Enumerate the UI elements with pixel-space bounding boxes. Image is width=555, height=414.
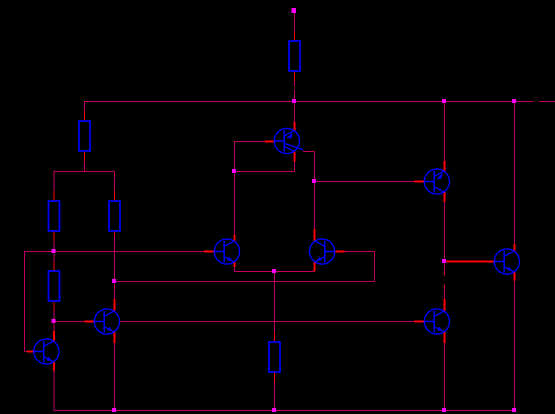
pin Q7 collector — [444, 299, 446, 311]
wire emitter join left — [235, 271, 275, 273]
junction node G — [442, 259, 446, 263]
wire node C to Q6 collector — [114, 282, 116, 300]
pin R3 top — [53, 191, 55, 201]
pin Q2 base — [415, 181, 425, 183]
wire split bar y=171 — [54, 171, 115, 173]
resistor R4 — [109, 201, 120, 231]
pin R4 bottom — [114, 231, 116, 236]
pin R1 top — [294, 32, 296, 41]
wire node D down to Q4 collector — [234, 172, 236, 236]
wire R2 to split node — [84, 161, 86, 172]
wire emitter join right — [275, 271, 315, 273]
wire R1 to rail lower — [294, 90, 296, 102]
wire Q8 emitter down — [53, 371, 55, 411]
wire node E to Q2 base — [315, 181, 415, 183]
pin Q3 base wire red — [445, 261, 495, 263]
junction rail x444 — [442, 99, 446, 103]
pin Q4 emitter — [234, 262, 236, 267]
resistor R2 — [79, 121, 90, 151]
wire Q4 emitter corner — [234, 267, 236, 272]
wire split to R3 — [53, 172, 55, 192]
wire left rail corner to Q8 base — [25, 351, 28, 353]
pin Q2 emitter — [444, 161, 446, 171]
wire R4 down to node C — [114, 236, 116, 282]
pin Q1 collector1 — [294, 152, 296, 162]
resistor R6 — [269, 342, 280, 372]
resistor R5 — [49, 271, 60, 301]
wire ground rail y=410 — [54, 410, 515, 412]
pin Q3 collector — [514, 244, 516, 251]
wire Q1 collector2 right — [303, 151, 315, 153]
wire Q3 emitter down to ground — [514, 281, 516, 411]
junction rail x294 — [292, 99, 296, 103]
pin Q7 base — [415, 321, 425, 323]
pin marker top supply — [292, 8, 297, 13]
pin Q7 emitter — [444, 332, 446, 343]
transistor Q5 NPN mirrored middle right — [310, 239, 335, 264]
wire node E down to Q5 collector — [314, 182, 316, 230]
wire node F down to R6 — [274, 272, 276, 333]
wire Q2 emitter up to rail — [444, 102, 446, 162]
transistor Q3 NPN bottom right — [494, 249, 519, 274]
junction ground x114 — [112, 408, 116, 412]
transistor Q4 NPN middle left — [214, 239, 239, 264]
wire Q1 collector1 down — [294, 161, 296, 171]
transistor Q7 NPN lower right — [424, 309, 449, 334]
wire rail to R2 — [84, 102, 86, 112]
resistor R3 — [49, 201, 60, 231]
pin R5 bottom — [53, 301, 55, 311]
pin R5 top — [53, 261, 55, 271]
junction ground x274 — [272, 408, 276, 412]
junction node B — [52, 319, 56, 323]
pin R6 top — [274, 332, 276, 342]
wire loop y=281 to node C — [115, 281, 375, 283]
pin Q8 collector — [53, 331, 55, 341]
pin R3 bottom — [53, 231, 55, 241]
transistor Q1 dual-collector PNP top — [274, 128, 303, 153]
pin R1 bottom — [294, 71, 296, 81]
resistor R1 — [289, 41, 300, 71]
wire R5 to node B — [53, 311, 55, 322]
pin Q6 emitter — [114, 332, 116, 343]
wire Q7 emitter down — [444, 343, 446, 411]
wire VCC rail right stub — [539, 101, 555, 103]
wire Q2 collector down to node G — [444, 202, 446, 262]
wire VCC rail y=101 — [84, 101, 534, 103]
wire Q5 base loop down — [374, 252, 376, 282]
pin R2 top — [84, 111, 86, 121]
pin Q8 emitter — [53, 362, 55, 370]
pin Q3 emitter — [514, 272, 516, 280]
junction node F — [272, 269, 276, 273]
pin Q6 collector — [114, 299, 116, 311]
wire split to R4 — [114, 172, 116, 192]
pin Q1 base — [265, 141, 275, 143]
transistor Q2 PNP right — [424, 169, 449, 194]
wire collector1 tie to node D — [235, 171, 295, 173]
wire Q8 collector to node B — [53, 322, 55, 332]
pin Q2 collector — [444, 192, 446, 202]
wire Q1 base left — [234, 141, 265, 143]
pin R4 top — [114, 191, 116, 201]
wire top pin to R1 — [294, 13, 296, 32]
pin R6 bottom — [274, 372, 276, 382]
junction rail x514 — [512, 99, 516, 103]
wire Q6 emitter down — [114, 343, 116, 411]
pin Q4 base — [204, 251, 215, 253]
wire R3 to node A — [53, 241, 55, 252]
wire R6 to ground rail — [274, 382, 276, 411]
wire Q1 emitter up to rail — [294, 102, 296, 123]
wire Q1 base down to node D — [234, 142, 236, 172]
junction ground x514 — [512, 408, 516, 412]
pin Q5 emitter — [314, 262, 316, 271]
wire Q7 base line y=321 — [119, 321, 414, 323]
junction node C — [112, 279, 116, 283]
wire node A to R5 — [53, 252, 55, 262]
pin Q4 collector — [234, 235, 236, 241]
wire node G down lower to Q7 — [444, 285, 446, 300]
wire long base line y=251 — [24, 251, 204, 253]
wire Q3 collector up to rail — [514, 102, 516, 245]
junction node E — [312, 179, 316, 183]
pin Q5 base — [334, 251, 344, 253]
junction ground x444 — [442, 408, 446, 412]
junction node A — [52, 249, 56, 253]
junction node D — [232, 169, 236, 173]
pin Q6 base — [84, 321, 94, 323]
transistor Q6 NPN lower middle — [94, 309, 119, 334]
wire collector2 down to node E — [314, 152, 316, 182]
wire Q5 base right — [345, 251, 375, 253]
wire node B to Q6 base — [54, 321, 84, 323]
wire left rail down — [24, 252, 26, 352]
pin Q5 collector — [314, 229, 316, 241]
wire node G down upper — [444, 262, 446, 276]
pin Q8 base — [27, 351, 35, 353]
pin Q1 emitter — [294, 122, 296, 131]
transistor Q8 NPN bottom left — [34, 339, 59, 364]
wire R1 to rail upper — [294, 81, 296, 87]
pin R2 bottom — [84, 151, 86, 161]
